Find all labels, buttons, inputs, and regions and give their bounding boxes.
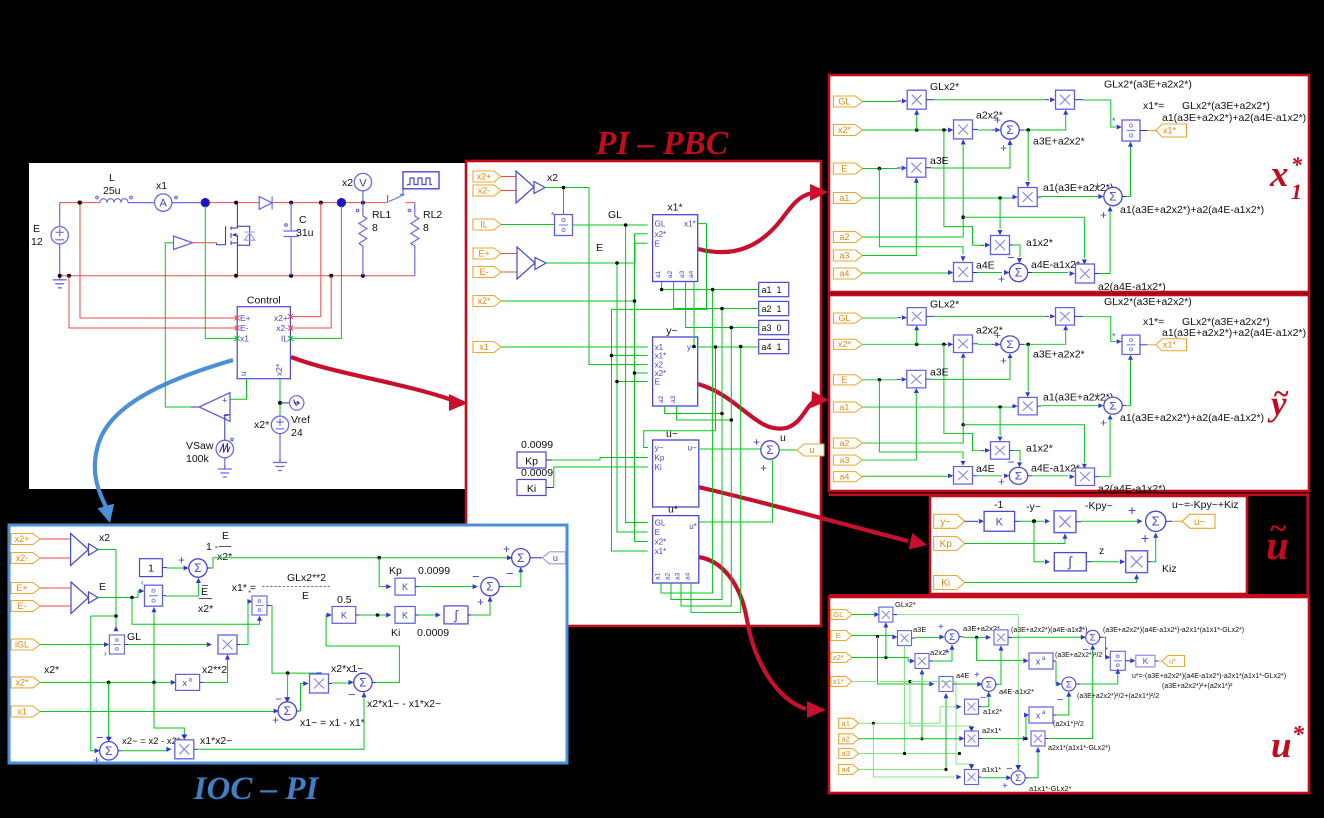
svg-text:x2+: x2+ [274,313,288,323]
wire a1 line [863,197,1013,199]
svg-text:24: 24 [291,427,303,439]
wire GL net [573,225,648,523]
wire a1 net [661,282,759,594]
svg-text:u*: u* [689,522,697,531]
svg-text:Kp: Kp [655,454,665,463]
svg-text:x2: x2 [342,177,353,189]
wire SU5 out to MBIG bottom [1025,777,1029,779]
wire E branch to div3 denominator [132,598,260,625]
svg-text:x1*: x1* [1163,126,1177,136]
tag u out [797,444,824,456]
tag GL [833,96,862,107]
node probe x2 blue dot [337,198,346,207]
summer 1-E/x2* [189,559,207,577]
ground main [53,276,67,288]
arrow x1* block to x1* panel [698,184,828,252]
wire probe tap [280,402,290,404]
control block U2 [237,307,290,379]
wire E net [546,243,648,532]
svg-text:x2+: x2+ [15,534,30,544]
wire divider out [1140,130,1148,132]
wire Kp out to sum2 [415,586,419,588]
svg-text:+: + [272,713,279,727]
wire sum to u tag [780,449,798,451]
svg-text:+: + [1100,208,1107,222]
svg-text:E: E [596,242,603,254]
svg-text:x2**2: x2**2 [202,664,227,676]
wire Ki [965,578,1137,583]
wire mult out to sum [1076,521,1081,523]
svg-text:x1: x1 [479,342,489,352]
svg-text:E: E [33,223,40,235]
svg-text:a1(a3E+a2x2*)+a2(a4E-a1x2*): a1(a3E+a2x2*)+a2(a4E-a1x2*) [1162,112,1306,124]
svg-text:GLx2*: GLx2* [930,81,959,93]
wire multX2 out to sum4 [329,683,332,685]
gain K u* [1136,655,1155,667]
svg-text:(a3E+a2x2*)²+(a2x1*)²: (a3E+a2x2*)²+(a2x1*)² [1162,683,1233,690]
tag E- [11,601,40,612]
wire E+ stub [501,253,517,255]
svg-text:x2: x2 [99,532,110,544]
svg-text:E: E [655,378,660,387]
svg-text:C: C [299,214,307,226]
svg-text:GL: GL [655,519,666,528]
wire SU3 out to divider [1100,636,1103,638]
svg-text:0.0009: 0.0009 [417,627,449,639]
svg-text:Kp: Kp [525,456,538,468]
block u* [653,516,699,583]
panel: converter circuit background [29,163,465,489]
wire a3 net [677,282,759,607]
wire x2+ red [40,538,71,540]
multiplier a3E [907,158,926,177]
wire IL [501,224,554,226]
wire sum5 out to multX2 [296,710,299,712]
probe V small [290,396,304,410]
summer a3E+a2x2* [1001,121,1019,139]
wire E branch to a4E mult [878,637,932,685]
svg-text:x: x [1269,154,1289,195]
svg-text:u*=-(a3E+a2x2*)(a4E-a1x2*)-a2x: u*=-(a3E+a2x2*)(a4E-a1x2*)-a2x1*(a1x1*-G… [1132,673,1286,680]
wire tap to Kp [379,558,388,587]
wire x1 [501,346,648,348]
wire x1 line [40,711,275,713]
wire x2 net [91,550,116,751]
svg-text:a4E-a1x2*: a4E-a1x2* [999,687,1034,696]
arrow y~ block to y~ panel [698,384,829,429]
svg-text:(a2x1*)²/2: (a2x1*)²/2 [1053,721,1084,728]
summer PI [481,577,499,595]
wire x2* down to M6 [944,130,981,245]
svg-text:GL: GL [127,631,141,643]
svg-text:−: − [472,569,480,584]
wire a2x2 out to sum bottom [930,660,934,662]
wire div3 out to x1* net [267,605,270,607]
svg-text:u: u [553,553,558,563]
svg-text:−: − [1007,250,1015,265]
svg-text:E: E [836,631,841,640]
multiplier x1*x2~ [175,740,194,759]
wire x1* branch to a1x1 top [910,682,972,768]
wire sum out to tag [1166,520,1172,522]
svg-text:E: E [222,530,229,542]
wire a1 down to M6 top [999,198,1001,229]
svg-text:x2*: x2* [44,664,59,676]
wire E net [98,591,141,598]
tag E+ [11,583,40,594]
gain Kp K [395,578,415,595]
wire x2 net [545,188,648,365]
panel: y~ border [829,295,1309,491]
svg-text:a3 0: a3 0 [762,323,782,333]
svg-text:u: u [780,432,786,444]
wire M1 out [926,99,934,101]
svg-text:(a3E+a2x2*)(a4E-a1x2*)-a2x1*(a: (a3E+a2x2*)(a4E-a1x2*)-a2x1*(a1x1*-GLx2*… [1103,627,1244,634]
multiplier a2x1u [965,731,979,746]
wire top rail red mid2 [205,202,415,204]
svg-text:a1: a1 [842,719,850,728]
wire x^a out to mult1 bottom [200,681,203,683]
svg-text:a4: a4 [685,572,692,580]
svg-text:GLx2*(a3E+a2x2*): GLx2*(a3E+a2x2*) [1182,100,1270,112]
wire 1 to sum1 [162,567,167,569]
svg-text:x1: x1 [17,707,27,717]
svg-text:a1(a3E+a2x2*)+a2(a4E-a1x2*): a1(a3E+a2x2*)+a2(a4E-a1x2*) [1120,204,1264,216]
wire sum out to u tag [530,557,542,559]
tag IL [473,219,501,230]
wire a4E out to S2u [954,683,958,685]
svg-text:a2: a2 [667,270,674,278]
svg-text:a2 1: a2 1 [762,304,782,314]
svg-text:−: − [1006,763,1012,775]
svg-text:-Kpy~: -Kpy~ [1085,500,1113,512]
svg-text:GL: GL [838,97,850,107]
wire integrator out [1086,561,1092,563]
source E 12 [59,203,61,276]
svg-text:~: ~ [1273,379,1289,410]
svg-text:a1x2*: a1x2* [1026,237,1053,249]
tag x1* [831,677,852,687]
svg-text:K: K [402,610,408,620]
node dot cap top [289,201,293,205]
wire x2+ stub [501,176,516,178]
wire x2+ sense [290,203,320,317]
wire sum3 out to multX6 [118,750,121,752]
svg-text:Kiz: Kiz [1162,563,1177,575]
svg-text:Control: Control [247,295,281,307]
wire a4 line [863,272,949,274]
wire a2x1 out [979,738,983,740]
svg-text:a2: a2 [842,734,850,743]
svg-text:GLx2*: GLx2* [895,600,916,609]
wire a2 branch to M8 top [963,217,1084,258]
wire a1 line [859,707,958,724]
svg-text:x2*: x2* [15,677,29,687]
tag a4 [833,268,862,279]
node dot x2+ sense [319,201,323,205]
multiplier x2*x1~ [310,674,329,693]
tag x2- [11,553,40,564]
svg-text:8: 8 [372,222,378,234]
svg-text:a2x1*(a1x1*-GLx2*): a2x1*(a1x1*-GLx2*) [1048,745,1110,752]
svg-text:x2*: x2* [217,551,232,563]
svg-text:Vref: Vref [291,414,310,426]
svg-text:+: + [1078,624,1084,635]
summer SU3 [1086,630,1100,644]
svg-text:−: − [506,566,514,581]
tag a1 [839,718,859,728]
svg-text:x2: x2 [547,172,558,184]
svg-text:x1*=: x1*= [1143,100,1164,112]
gain 0.5 [332,607,356,624]
tag x2* [11,677,40,688]
svg-text:a4E: a4E [956,671,969,680]
svg-text:−: − [275,692,282,706]
wire M5 out to S2 [1037,196,1041,198]
svg-text:+: + [753,435,760,449]
svg-text:iGL: iGL [15,640,29,650]
multiplier a2x2* [954,120,973,139]
svg-text:a3: a3 [670,395,677,403]
wire Kiz to sum bottom [1148,561,1152,563]
node probe x1 blue dot [201,198,210,207]
node dot top-left [78,201,82,205]
svg-text:a3: a3 [675,572,682,580]
svg-text:*: * [1105,646,1108,655]
svg-text:+: + [222,396,227,406]
multiplier GLx2* [907,90,926,109]
wire x1* output net [612,224,707,551]
wire a3 line [863,183,917,256]
y~ panel network (duplicate of x1* network) [833,297,1306,494]
transistor Q1 mosfet [216,203,249,276]
svg-text:8: 8 [423,222,429,234]
svg-text:a2: a2 [839,232,849,242]
svg-text:‹: ‹ [141,578,144,587]
svg-text:L: L [109,172,115,184]
gain Ki K [395,607,415,624]
divider x1* [252,596,267,615]
tag a1 [833,193,862,204]
voltmeter x2 [354,173,371,190]
tag u~ out [1182,514,1215,528]
svg-text:E: E [655,528,660,537]
svg-text:x2*x1~: x2*x1~ [331,663,363,675]
wire E- sense [69,276,237,328]
svg-text:V: V [359,177,367,189]
tag Kp [934,537,965,551]
node dot mosfet drain [234,201,238,205]
svg-text:IL: IL [281,334,288,344]
svg-text:25u: 25u [103,185,121,197]
svg-text:a4 1: a4 1 [762,342,782,352]
svg-text:+: + [178,553,185,567]
svg-text:u~: u~ [688,444,697,453]
wire integrator out to sum2 bottom [468,614,471,616]
svg-text:x1*: x1* [833,677,844,686]
multiplier a4E [954,263,973,282]
math label u* [1271,722,1305,766]
wire u* out loop [699,460,773,522]
svg-text:+: + [1002,781,1008,792]
wire x2* down to sum3 [108,682,110,738]
svg-text:a3: a3 [839,251,849,261]
ammeter x1 [155,194,172,211]
svg-text:a1x1*: a1x1* [982,765,1001,774]
wire MBIG out up to SU3 bottom [1045,738,1048,740]
svg-text:Kp: Kp [389,565,402,577]
svg-text:+: + [944,647,950,658]
wire a4 net [691,282,741,613]
svg-text:u: u [238,371,248,376]
wire a1x2 out to S2u top [979,706,982,708]
source x2* Vref 24 [271,416,288,433]
svg-text:-1: -1 [994,499,1003,511]
svg-text:PI – PBC: PI – PBC [595,125,729,162]
wire E- stub [501,271,517,273]
wire sum1 out long [207,567,211,569]
wire a3 to a3E [858,646,960,754]
svg-text:a1: a1 [655,572,662,580]
constant 1 [140,559,163,577]
svg-text:0.0099: 0.0099 [418,565,450,577]
svg-text:a1: a1 [839,193,849,203]
svg-text:u~=-Kpy~+Kiz: u~=-Kpy~+Kiz [1172,499,1239,511]
svg-text:x1*: x1* [655,352,667,361]
svg-text:u~: u~ [666,428,678,440]
wire M6 out to S3 top [1010,244,1013,246]
tag x1 [473,342,501,353]
wire branch to xsq1 [977,637,1024,660]
arrow blue control to IOC-PI [95,360,233,523]
divider u* [1110,651,1125,670]
tag E- [473,267,501,278]
svg-text:a2x1*: a2x1* [982,726,1001,735]
svg-text:+: + [760,461,767,475]
wire E+ sense [80,203,237,318]
arrow u* block to u* panel [698,557,826,718]
math label u-tilde [1266,510,1289,568]
svg-text:x1: x1 [240,334,249,344]
ground vsaw [224,458,226,468]
svg-text:x2*: x2* [274,363,284,376]
svg-text:x2*: x2* [254,419,269,431]
svg-text:x1* =: x1* = [232,582,256,594]
gain Kp [517,452,546,468]
wire S1 down to M5 top [1027,130,1029,181]
wire M7 out to S3 [973,272,978,274]
resistor RL2 8 [411,203,419,276]
multiplier a2(a4E-a1x2*) [1076,264,1095,283]
svg-text:a1: a1 [655,270,662,278]
svg-text:K: K [402,582,408,592]
wire div to K [1125,660,1132,662]
wire x1* down to sum5 [287,673,289,699]
wire u~ out [699,448,761,450]
svg-text:E+: E+ [240,313,251,323]
power xsq2 [1029,707,1053,723]
svg-text:GLx2**2: GLx2**2 [287,572,326,584]
svg-text:x2*: x2* [655,538,667,547]
ground vref [279,434,281,461]
svg-text:a2: a2 [658,395,665,403]
svg-text:x2*: x2* [838,125,852,135]
svg-text:a3E+a2x2*: a3E+a2x2* [1033,136,1085,148]
gain Ki [517,480,546,496]
wire x2- sense [290,276,331,328]
svg-text:x2*x1~ - x1*x2~: x2*x1~ - x1*x2~ [367,698,441,710]
svg-text:RL2: RL2 [423,209,442,221]
node dots bottom rail [58,274,62,278]
multiplier a1x2u [965,699,979,714]
svg-text:x2*: x2* [655,230,667,239]
summer x1~ [278,702,296,720]
constant a3 [759,320,789,334]
svg-text:31u: 31u [296,227,314,239]
svg-text:+: + [1128,502,1136,518]
squarewave source [403,172,439,189]
svg-text:x1*x2~: x1*x2~ [200,735,232,747]
svg-text:x1: x1 [156,180,167,192]
svg-text:*: * [1291,152,1303,177]
svg-text:VSaw: VSaw [186,440,214,452]
wire sum2 out to sumout bottom [499,586,503,588]
math label x1* [1269,152,1303,204]
svg-text:x2*: x2* [833,653,844,662]
svg-text:a1x1*-GLx2*: a1x1*-GLx2* [1029,784,1072,793]
tag a2 [839,734,859,744]
multiplier GLx2*(a3E+a2x2*) [1056,90,1075,109]
wire K0.5 out to Ki [356,614,359,616]
multiplier a2x2u [915,654,929,669]
wire M4 out to S1 bottom [926,167,931,169]
svg-text:(a3E+a2x2*)(a4E-a1x2*): (a3E+a2x2*)(a4E-a1x2*) [1011,627,1087,634]
svg-text:+: + [998,272,1005,286]
tag x2* [831,653,852,663]
svg-text:x2-: x2- [16,553,29,563]
math label y-tilde [1267,379,1289,423]
svg-text:x1~ = x1 - x1*: x1~ = x1 - x1* [300,717,365,729]
arrow u~ block to u~ panel [698,487,927,550]
svg-text:GL: GL [655,220,666,229]
svg-text:u: u [1271,725,1292,766]
svg-text:E-: E- [480,267,489,277]
tag u out gray [542,552,565,564]
tag a3 [833,250,862,261]
panel: x1* border [829,75,1309,292]
svg-text:RL1: RL1 [372,209,391,221]
svg-text:IL: IL [480,220,488,230]
svg-text:a3E: a3E [913,625,926,634]
svg-text:a4: a4 [842,765,850,774]
svg-text:-y~: -y~ [1026,501,1041,513]
wire opamp minus to vsaw [225,415,230,441]
summer output u [512,549,530,567]
wire S1 out net [1019,129,1024,131]
wire M8 out to S2 bottom [1095,273,1100,275]
svg-text:+: + [477,595,484,609]
wire branch to integrator [1034,521,1044,561]
wire xsq1 out to SU4 [1053,660,1056,662]
svg-text:E-: E- [18,601,27,611]
multiplier GLx2u [879,607,893,622]
wire GL [852,614,875,616]
wire x1 probe to control [205,206,237,338]
wire x2* pin to source [279,379,281,417]
wire M3 to S1 [973,128,979,130]
panel: u~ white inner [930,496,1247,594]
svg-text:~: ~ [1269,510,1287,545]
